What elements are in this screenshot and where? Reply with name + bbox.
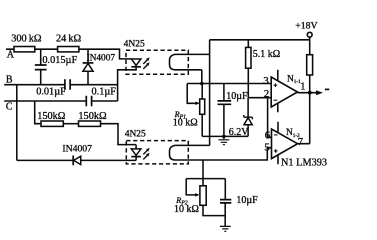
- op-amp N1-2 minus sign: [274, 134, 278, 136]
- capacitor C4 10uF: [220, 200, 231, 227]
- node dot ground: [222, 135, 226, 139]
- LED of U1: [118, 59, 141, 101]
- svg-text:B: B: [6, 74, 13, 85]
- svg-text:4N25: 4N25: [125, 130, 146, 140]
- op-amp N1-1: [271, 77, 297, 107]
- wire +18V feed vertical: [209, 40, 211, 146]
- svg-text:7: 7: [298, 137, 303, 148]
- wire 150k row to LED2 anode: [101, 124, 137, 145]
- svg-text:4N25: 4N25: [124, 39, 145, 49]
- svg-text:N1 LM393: N1 LM393: [281, 158, 327, 169]
- svg-text:5.1 kΩ: 5.1 kΩ: [253, 49, 280, 60]
- wire wiper and cap branch: [186, 179, 225, 200]
- op-amp N1-1 plus sign: [274, 83, 278, 87]
- wire between 150k: [63, 123, 78, 125]
- svg-text:10 kΩ: 10 kΩ: [173, 117, 198, 128]
- wire pin3 line: [187, 83, 271, 85]
- zener diode 6.2V: [244, 98, 253, 137]
- svg-text:1: 1: [300, 82, 305, 93]
- svg-text:150kΩ: 150kΩ: [37, 111, 66, 122]
- light arrows U1: [143, 57, 149, 69]
- svg-text:N1-1: N1-1: [287, 74, 301, 85]
- svg-text:IN4007: IN4007: [62, 144, 92, 155]
- resistor pull-up: [307, 40, 313, 93]
- svg-text:IN4007: IN4007: [87, 53, 116, 63]
- wire pin2 line: [248, 97, 271, 99]
- svg-text:6: 6: [265, 130, 271, 142]
- wire pin6 feed: [268, 98, 272, 138]
- capacitor 0.015uF: [35, 49, 47, 84]
- svg-text:6.2V: 6.2V: [229, 127, 250, 138]
- ground symbol 1: [219, 136, 230, 144]
- phototransistor of U2 with collector and emitter to pin5: [170, 145, 272, 160]
- wire input B line: [4, 84, 117, 86]
- svg-text:3: 3: [263, 75, 269, 87]
- wire input A line: [6, 49, 131, 59]
- optocoupler U1 4N25 dashed box: [126, 50, 188, 74]
- capacitor 0.1uF: [86, 96, 91, 107]
- op-amp N1-1 minus sign: [274, 99, 278, 101]
- terminal +18V: [307, 32, 312, 40]
- resistor 150k first: [41, 121, 63, 126]
- wire input C line: [4, 100, 117, 102]
- svg-text:150kΩ: 150kΩ: [78, 111, 107, 122]
- output minus mark: [325, 88, 329, 90]
- optocoupler U2 4N25 dashed box: [126, 141, 188, 164]
- node dot pin3: [200, 82, 204, 86]
- resistor 300k: [14, 47, 35, 52]
- light arrows U2: [143, 148, 149, 160]
- potentiometer RP2: [200, 186, 225, 216]
- wire +18V rail: [210, 39, 310, 41]
- resistor 5.1k: [246, 40, 251, 98]
- op-amp N1-2 power stubs: [277, 122, 279, 165]
- svg-text:0.1µF: 0.1µF: [92, 86, 117, 97]
- output arrowhead: [316, 90, 323, 95]
- phototransistor of U1 and collector/emitter wires: [170, 54, 210, 83]
- wire left vertical B to bottom: [16, 85, 18, 161]
- wire bottom line: [17, 159, 136, 161]
- node dot output: [308, 91, 312, 95]
- op-amp N1-2: [272, 129, 298, 159]
- potentiometer RP1 wiper arrow: [187, 84, 200, 106]
- potentiometer RP1: [200, 84, 205, 137]
- svg-text:10µF: 10µF: [236, 195, 258, 206]
- wire C to 150k row: [35, 101, 41, 124]
- capacitor C3 10uF: [218, 84, 232, 137]
- svg-text:0.01µF: 0.01µF: [36, 86, 66, 97]
- svg-text:+18V: +18V: [295, 21, 317, 32]
- ground symbol 2: [220, 226, 231, 231]
- wire RP2 drop: [202, 160, 204, 186]
- svg-text:24 kΩ: 24 kΩ: [56, 33, 82, 44]
- resistor 24k: [58, 47, 79, 52]
- svg-text:2: 2: [264, 88, 270, 100]
- diode D2 IN4007: [73, 156, 81, 166]
- wire ground line: [202, 135, 248, 137]
- svg-text:300 kΩ: 300 kΩ: [11, 33, 42, 44]
- LED of U2: [131, 145, 141, 161]
- resistor 150k second: [79, 121, 101, 126]
- svg-text:0.015µF: 0.015µF: [42, 55, 77, 66]
- capacitor 0.01uF: [65, 79, 70, 90]
- diode D1 IN4007: [83, 49, 94, 84]
- svg-text:C: C: [6, 101, 13, 112]
- op-amp N1-1 power stubs: [277, 70, 279, 112]
- potentiometer RP2 wiper arrow: [186, 179, 200, 197]
- wire output: [298, 92, 317, 94]
- svg-text:10 kΩ: 10 kΩ: [174, 204, 199, 215]
- svg-text:10µF: 10µF: [226, 91, 248, 102]
- wire outputs link: [298, 93, 310, 144]
- op-amp N1-2 plus sign: [274, 149, 278, 153]
